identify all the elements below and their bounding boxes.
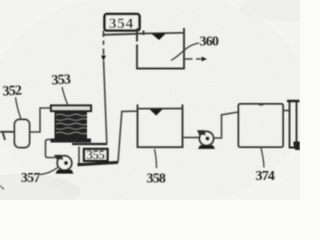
- wire 354 box stub to pipe: [143, 31, 145, 36]
- wire tank358 outlet to pump359: [184, 137, 200, 139]
- pump 357 spout: [54, 155, 64, 160]
- wire column353 bottom to pump357: [46, 140, 56, 158]
- water level symbol tank360: [152, 33, 167, 40]
- column 353 cap: [51, 106, 91, 112]
- leader line 360: [171, 43, 199, 61]
- wire 354 drop pipe (dashed scan): [103, 31, 105, 38]
- wire inlet break tick: [3, 132, 6, 140]
- wire inlet from left edge: [0, 131, 14, 133]
- filter column (right edge, cut off): [290, 101, 297, 149]
- pump 359 spout: [197, 130, 206, 135]
- pump 359: [200, 132, 214, 146]
- leader line 358: [155, 149, 157, 168]
- wire pump359 to tank374: [214, 112, 239, 138]
- column 353 bottom plate: [51, 139, 92, 143]
- box 354 (controller): [105, 14, 140, 31]
- wire column353 drain to riser junction: [72, 143, 107, 145]
- tank 360: [137, 28, 184, 69]
- filter bottom outlet blob (cut off): [293, 142, 299, 151]
- leader line 357: [40, 168, 58, 175]
- pump 357: [57, 156, 71, 170]
- wire tank374 outlet: [283, 110, 290, 112]
- wire bottom header pipe: [78, 162, 119, 164]
- arrowhead down on drop pipe: [101, 56, 106, 62]
- tank374 top notch: [259, 104, 265, 105]
- scan speck bottom left: [0, 186, 4, 190]
- wire top feed pipe to tank360: [103, 34, 138, 35]
- pump 359 base: [198, 145, 215, 149]
- tank 358: [137, 105, 184, 149]
- leader line 374: [261, 148, 264, 168]
- scan noise overlay: [0, 0, 300, 200]
- wire riser B to tank358 inlet: [118, 111, 138, 162]
- column 353 body (packed/hatched): [55, 111, 87, 139]
- pump 357 base: [56, 170, 74, 174]
- outlet arrow tank360: [185, 58, 202, 60]
- leader line 353: [62, 87, 68, 106]
- wire pump357 riser: [78, 147, 80, 166]
- leader line 352: [16, 98, 22, 120]
- wire vessel352 to column353: [30, 108, 53, 132]
- water level symbol tank358: [150, 109, 164, 116]
- box 355: [84, 149, 108, 161]
- vessel 352: [15, 120, 30, 148]
- tank 374: [239, 104, 284, 147]
